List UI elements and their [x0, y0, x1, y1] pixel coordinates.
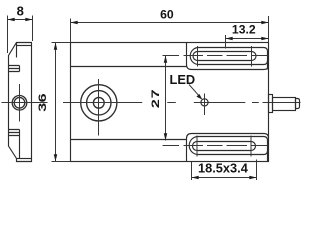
svg-text:60: 60	[160, 8, 174, 22]
bottom slot boss outline	[189, 137, 267, 162]
side view hole centerlines	[2, 84, 48, 122]
svg-text:18.5x3.4: 18.5x3.4	[198, 160, 249, 175]
body internal lower line	[71, 139, 187, 141]
dimension 60	[71, 8, 269, 42]
sensing face circles	[81, 85, 117, 121]
dimension 18.5x3.4	[192, 160, 257, 181]
top slot 18.5x3.4	[193, 46, 256, 67]
bottom slot center line	[163, 145, 268, 147]
bottom mounting plate	[187, 134, 269, 162]
connector barrel	[273, 98, 296, 111]
dimension 27	[148, 56, 167, 141]
front view body	[71, 43, 269, 162]
bottom slot 18.5x3.4	[193, 136, 256, 157]
svg-text:3: 3	[36, 102, 49, 111]
circle vertical centerline	[98, 79, 100, 136]
side view bottom step ridges	[9, 130, 20, 159]
svg-text:LED: LED	[170, 72, 196, 87]
main horizontal centerline	[63, 102, 301, 104]
top slot center line	[163, 55, 268, 57]
LED leader arrow	[189, 85, 202, 100]
side view top step ridges	[9, 66, 20, 72]
LED indicator	[201, 94, 208, 116]
connector flange	[269, 95, 273, 113]
body internal upper line	[71, 66, 187, 68]
side view outline	[9, 43, 32, 162]
dimension 36	[36, 43, 71, 162]
svg-text:6: 6	[36, 93, 49, 102]
svg-text:2: 2	[148, 99, 161, 108]
top slot boss outline	[190, 48, 267, 70]
dimension 13.2	[226, 23, 269, 49]
connector tip	[296, 99, 300, 109]
svg-text:8: 8	[17, 4, 24, 19]
side view mounting hole	[12, 96, 27, 111]
svg-text:13.2: 13.2	[232, 23, 256, 37]
top mounting plate	[187, 43, 269, 70]
svg-text:7: 7	[148, 89, 161, 98]
dimension 8	[8, 4, 33, 53]
